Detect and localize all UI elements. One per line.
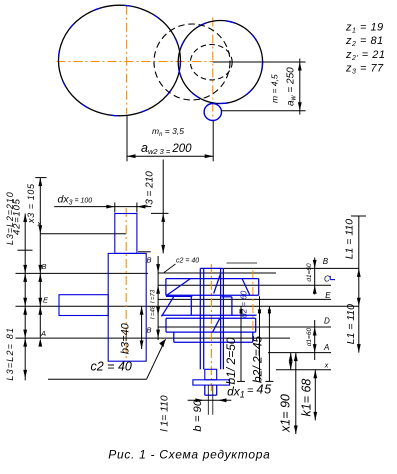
svg-text:z2′ = 21: z2′ = 21 [345, 49, 386, 62]
svg-text:l =48: l =48 [151, 305, 157, 319]
svg-text:A: A [40, 329, 46, 338]
svg-text:x1= 90: x1= 90 [279, 394, 293, 433]
svg-text:x: x [37, 221, 42, 228]
svg-text:L1 = 110: L1 = 110 [345, 304, 357, 345]
svg-text:m = 4,5: m = 4,5 [270, 74, 280, 103]
svg-text:z1 = 19: z1 = 19 [345, 22, 384, 35]
svg-text:L1 = 110: L1 = 110 [344, 219, 356, 260]
svg-text:b = 90: b = 90 [192, 399, 204, 431]
svg-text:Рис. 1 - Схема редуктора: Рис. 1 - Схема редуктора [108, 448, 270, 462]
svg-text:C: C [324, 275, 330, 284]
svg-text:c2 = 40: c2 = 40 [91, 359, 132, 373]
svg-text:B: B [42, 262, 47, 271]
svg-text:B: B [147, 326, 152, 335]
svg-text:b3=40: b3=40 [119, 322, 131, 354]
svg-text:l 1= 110: l 1= 110 [160, 395, 171, 431]
svg-text:x3 = 105: x3 = 105 [26, 183, 36, 224]
svg-text:z2 = 81: z2 = 81 [345, 35, 384, 48]
svg-text:c2 = 40: c2 = 40 [176, 258, 199, 265]
svg-text:l =73: l =73 [151, 289, 157, 303]
svg-text:B: B [323, 257, 329, 266]
svg-text:=: = [247, 385, 254, 397]
svg-text:z3 = 77: z3 = 77 [345, 63, 384, 76]
svg-text:A: A [323, 343, 329, 352]
svg-text:k1= 68: k1= 68 [299, 379, 313, 417]
svg-text:45: 45 [257, 383, 273, 397]
svg-text:D: D [324, 316, 330, 325]
svg-text:d1=60: d1=60 [306, 263, 313, 282]
svg-text:b1/ 2=50: b1/ 2=50 [224, 337, 238, 384]
svg-text:b2/ 2=45: b2/ 2=45 [251, 336, 265, 383]
svg-text:x: x [324, 363, 329, 370]
svg-text:42=105: 42=105 [11, 198, 22, 235]
svg-text:’3 = 210: ’3 = 210 [145, 171, 156, 207]
svg-text:E: E [325, 291, 331, 300]
svg-text:d1=60: d1=60 [306, 328, 313, 347]
svg-text:B: B [147, 256, 152, 265]
svg-text:L3=L2= 81: L3=L2= 81 [5, 327, 15, 381]
